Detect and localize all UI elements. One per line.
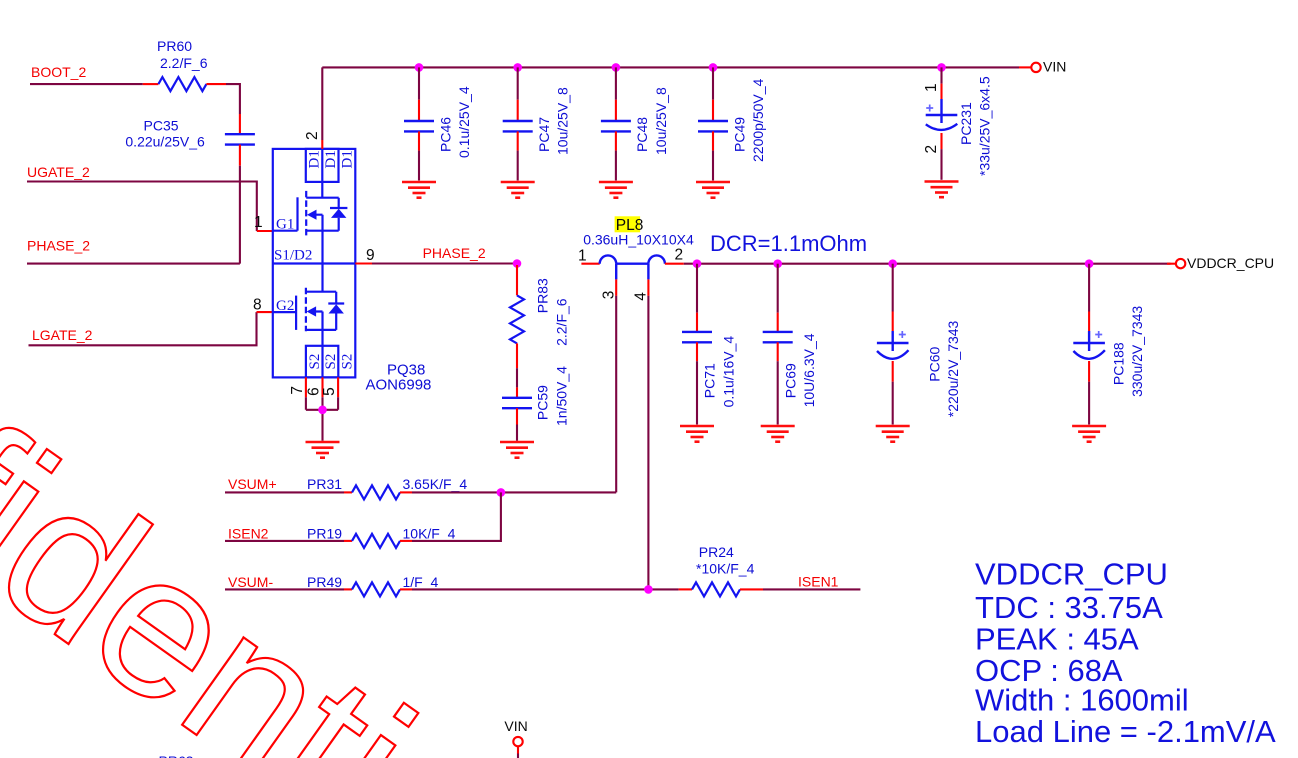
wire PC46 drop	[418, 67, 420, 99]
wire PC231 drop	[940, 67, 942, 83]
terminal VDDCR_CPU	[1176, 259, 1185, 268]
svg-text:1: 1	[923, 83, 940, 92]
wire PC46 to ground	[418, 151, 420, 181]
mosfet upper arrow	[307, 210, 317, 220]
pin stub left of PR49	[344, 588, 352, 590]
wire PC35 to PHASE_2	[239, 166, 241, 264]
svg-text:S2: S2	[323, 354, 339, 370]
junction VSUM+	[497, 488, 506, 497]
bottom pins 7 6 5 stubs	[306, 377, 338, 397]
svg-text:*220u/2V_7343: *220u/2V_7343	[945, 320, 961, 417]
svg-text:PHASE_2: PHASE_2	[27, 238, 90, 254]
junction PC69	[773, 259, 782, 268]
node junction PHASE	[513, 259, 522, 268]
inductor PL8	[600, 255, 665, 279]
svg-text:S2: S2	[307, 354, 323, 370]
svg-text:VIN: VIN	[504, 718, 527, 734]
svg-text:0.1u/16V_4: 0.1u/16V_4	[720, 336, 736, 408]
wire PC71 to ground	[696, 361, 698, 424]
wire PC188 drop	[1088, 264, 1090, 312]
wire PC71 drop	[696, 264, 698, 313]
svg-text:BOOT_2: BOOT_2	[31, 64, 86, 80]
mosfet lower arrow	[307, 306, 317, 316]
wire below VIN terminal	[517, 754, 519, 758]
svg-text:9: 9	[366, 247, 375, 264]
highlight PL8	[615, 216, 641, 232]
svg-text:PR60: PR60	[157, 38, 192, 54]
pin stub left of PR60	[143, 83, 159, 85]
wire bottom pin bus	[306, 397, 338, 441]
svg-text:8: 8	[253, 297, 262, 314]
svg-text:7: 7	[289, 386, 306, 395]
wire LGATE_2	[29, 312, 257, 345]
capacitor PC188 polarized	[1073, 331, 1105, 359]
svg-text:1: 1	[254, 214, 263, 231]
ground below PC71	[680, 426, 714, 442]
wire BOOT_2	[30, 83, 143, 85]
wire ISEN1	[763, 588, 860, 590]
svg-text:2.2/F_6: 2.2/F_6	[554, 298, 570, 346]
svg-text:5: 5	[321, 387, 338, 396]
wire PC47 to ground	[517, 151, 519, 181]
junction PC48	[612, 63, 621, 72]
capacitor PC59	[502, 398, 532, 408]
svg-text:2: 2	[923, 145, 940, 154]
wire PR19 up to VSUM+ junction	[412, 492, 501, 541]
wire VSUM+	[225, 491, 344, 493]
mosfet lower of PQ38	[273, 264, 344, 346]
capacitor PC231 polarized	[926, 99, 958, 130]
terminal VIN bottom	[513, 737, 522, 746]
pin stub top of PC71	[696, 313, 698, 332]
wire ISEN2	[225, 540, 344, 542]
resistor PR24	[692, 582, 740, 596]
ground below PQ38	[306, 442, 340, 458]
wire pin3 sense down	[615, 296, 617, 493]
svg-text:PEAK : 45A: PEAK : 45A	[975, 622, 1139, 657]
wire PR49 to junction	[412, 588, 679, 590]
wire PC231 to ground	[940, 149, 942, 180]
svg-text:*10K/F_4: *10K/F_4	[696, 561, 755, 577]
svg-text:4: 4	[633, 292, 650, 301]
svg-text:TDC : 33.75A: TDC : 33.75A	[975, 590, 1163, 625]
svg-text:PC188: PC188	[1110, 342, 1126, 385]
S1/D2 divider line	[273, 262, 356, 264]
svg-text:PC49: PC49	[731, 117, 747, 152]
pin stub before VDDCR terminal	[1167, 263, 1176, 265]
svg-text:D1: D1	[323, 150, 339, 168]
svg-text:Width : 1600mil: Width : 1600mil	[975, 683, 1189, 718]
pin stub top of PC47	[517, 100, 519, 121]
pin stub top of PR83	[516, 265, 518, 295]
svg-text:6: 6	[305, 387, 322, 396]
svg-text:PC47: PC47	[536, 117, 552, 152]
wire BOOT to PC35	[226, 84, 240, 114]
mosfet upper of PQ38	[273, 182, 348, 264]
svg-text:VDDCR_CPU: VDDCR_CPU	[975, 557, 1168, 592]
ground below PC49	[696, 182, 730, 198]
pin stub top of PC69	[777, 313, 779, 332]
wire VSUM-	[225, 588, 344, 590]
pin stub bottom of PC60	[892, 361, 894, 382]
svg-text:S2: S2	[340, 354, 356, 370]
ground below PC69	[761, 426, 795, 442]
wire VDDCR rail	[684, 263, 1171, 265]
resistor PR49	[352, 582, 400, 596]
pin stub inductor pin 1	[581, 263, 599, 265]
svg-text:0.22u/25V_6: 0.22u/25V_6	[125, 134, 205, 150]
svg-text:ISEN1: ISEN1	[798, 574, 839, 590]
svg-text:PR83: PR83	[535, 278, 551, 313]
capacitor PC46	[404, 121, 434, 131]
pin stub right of PR19	[400, 540, 412, 542]
wire UGATE_2	[27, 182, 257, 232]
pin stub bottom of PC48	[615, 131, 617, 150]
svg-text:PR24: PR24	[699, 544, 734, 560]
wire PC49 to ground	[712, 151, 714, 181]
pin stub right of PR31	[400, 491, 412, 493]
svg-text:VSUM+: VSUM+	[228, 476, 277, 492]
pin stub pin 9	[355, 262, 372, 264]
svg-text:10U/6.3V_4: 10U/6.3V_4	[801, 333, 817, 407]
wire PR31 to junction	[412, 491, 616, 493]
pin stub right of PR24	[740, 588, 763, 590]
ground below PC60	[876, 426, 910, 442]
pin stub bottom of PC49	[712, 131, 714, 150]
svg-text:1: 1	[578, 248, 587, 265]
ground below PC46	[402, 182, 436, 198]
svg-text:0.1u/25V_4: 0.1u/25V_4	[456, 86, 472, 158]
wire PR83 to PC59	[516, 368, 518, 387]
junction VSUM-	[644, 585, 653, 594]
pin stub bottom of PC59	[516, 408, 518, 424]
junction PC188	[1085, 259, 1094, 268]
svg-text:PR49: PR49	[307, 574, 342, 590]
svg-text:PC71: PC71	[702, 363, 718, 398]
wire PC48 to ground	[615, 151, 617, 181]
svg-text:PR63: PR63	[159, 753, 194, 758]
wire PC47 drop	[517, 67, 519, 99]
pin stub top of PC49	[712, 100, 714, 121]
svg-text:PC35: PC35	[144, 118, 179, 134]
pin stub left of PR19	[344, 540, 352, 542]
wire PC69 to ground	[777, 361, 779, 424]
svg-text:S1/D2: S1/D2	[274, 248, 312, 264]
pin stub pin 1 of PC231	[940, 84, 942, 99]
pin stub top of PC35	[239, 114, 241, 134]
transistor PQ38 package outline	[273, 149, 356, 378]
wire PC60 to ground	[892, 382, 894, 425]
svg-text:Load Line = -2.1mV/A: Load Line = -2.1mV/A	[975, 714, 1276, 749]
svg-text:PC48: PC48	[634, 117, 650, 152]
junction PC47	[513, 63, 522, 72]
svg-text:2: 2	[304, 131, 321, 140]
svg-text:LGATE_2: LGATE_2	[32, 327, 93, 343]
svg-text:AON6998: AON6998	[366, 377, 432, 394]
svg-text:VIN: VIN	[1043, 59, 1066, 75]
svg-text:2.2/F_6: 2.2/F_6	[160, 55, 208, 71]
pin stub right of PR60	[206, 83, 226, 85]
svg-text:10K/F_4: 10K/F_4	[403, 526, 456, 542]
S2 pin box	[306, 346, 338, 378]
pin stub left of PR31	[344, 491, 352, 493]
pin stub top of PC60	[892, 312, 894, 332]
svg-text:PC60: PC60	[926, 346, 942, 381]
wire PC69 drop	[777, 264, 779, 313]
junction PC231	[937, 63, 946, 72]
ground below PC231	[925, 182, 959, 198]
capacitor PC48	[601, 121, 631, 131]
pin stub bottom of PR83	[516, 343, 518, 368]
pin stub right of PR49	[400, 588, 412, 590]
resistor PR83	[510, 295, 524, 343]
junction at pin bus	[318, 406, 327, 415]
svg-text:PC69: PC69	[782, 363, 798, 398]
pin stub top of PC48	[615, 100, 617, 121]
pin stub top of PC46	[418, 100, 420, 121]
resistor PR31	[352, 485, 400, 499]
pin stub left of PR24	[679, 588, 692, 590]
svg-text:D1: D1	[340, 150, 356, 168]
wire PHASE_2 left	[27, 263, 240, 265]
svg-text:3: 3	[601, 291, 618, 300]
D1 pin box	[306, 149, 339, 182]
pin stub bottom of PC35	[239, 145, 241, 166]
svg-text:PC231: PC231	[958, 102, 974, 145]
pin stub bottom of PC69	[777, 342, 779, 361]
ground below PC47	[501, 182, 535, 198]
svg-text:DCR=1.1mOhm: DCR=1.1mOhm	[710, 231, 867, 256]
svg-text:3.65K/F_4: 3.65K/F_4	[403, 476, 468, 492]
wire PC59 to ground	[516, 425, 518, 441]
svg-text:2: 2	[675, 247, 684, 264]
svg-text:1n/50V_4: 1n/50V_4	[554, 366, 570, 426]
capacitor PC49	[698, 121, 728, 131]
resistor PR60	[158, 77, 206, 91]
capacitor PC69	[763, 332, 793, 342]
junction PC49	[709, 63, 718, 72]
svg-text:2200p/50V_4: 2200p/50V_4	[750, 78, 766, 162]
svg-text:D1: D1	[307, 150, 323, 168]
ground below PC59	[500, 442, 534, 458]
svg-text:330u/2V_7343: 330u/2V_7343	[1129, 306, 1145, 397]
junction PC46	[415, 63, 424, 72]
svg-text:10u/25V_8: 10u/25V_8	[555, 87, 571, 155]
wire VIN top rail	[322, 66, 1019, 68]
text block VDDCR specs	[975, 557, 1276, 750]
svg-text:PR31: PR31	[307, 476, 342, 492]
wire PC48 drop	[615, 67, 617, 99]
pin stub bottom of PC47	[517, 131, 519, 150]
pin stub below VIN terminal	[517, 747, 519, 754]
wire PHASE_2 mid	[372, 262, 517, 264]
svg-text:ISEN2: ISEN2	[228, 526, 269, 542]
wire pin2 riser	[321, 67, 323, 140]
junction PC71	[693, 259, 702, 268]
ground below PC188	[1072, 426, 1106, 442]
mosfet upper body diode triangle	[331, 209, 346, 218]
ground below PC48	[599, 182, 633, 198]
pin stub bottom of PC71	[696, 342, 698, 361]
svg-text:1/F_4: 1/F_4	[403, 574, 439, 590]
pin stub inductor pin 3	[615, 279, 617, 295]
resistor PR19	[352, 534, 400, 548]
junction PC60	[888, 259, 897, 268]
svg-text:PC46: PC46	[437, 117, 453, 152]
pin stub G2 pin 8	[257, 311, 273, 313]
pin stub inductor pin 4	[647, 279, 649, 295]
pin stub bottom of PC46	[418, 131, 420, 150]
svg-text:UGATE_2: UGATE_2	[27, 164, 90, 180]
svg-text:0.36uH_10X10X4: 0.36uH_10X10X4	[583, 232, 694, 248]
svg-text:10u/25V_8: 10u/25V_8	[653, 87, 669, 155]
capacitor PC60 polarized	[877, 331, 909, 359]
pin stub top of PC188	[1088, 312, 1090, 332]
terminal VIN	[1031, 63, 1040, 72]
wire PC49 drop	[712, 67, 714, 99]
wire PC60 drop	[892, 264, 894, 312]
wire PC188 to ground	[1088, 382, 1090, 425]
pin stub inductor pin 2	[665, 263, 684, 265]
wire pin4 sense down	[647, 296, 649, 590]
capacitor PC47	[503, 121, 533, 131]
svg-text:PR19: PR19	[307, 526, 342, 542]
pin stub before VIN terminal	[1019, 66, 1031, 68]
svg-text:*33u/25V_6x4.5: *33u/25V_6x4.5	[977, 76, 993, 176]
svg-text:PHASE_2: PHASE_2	[423, 245, 486, 261]
pin stub top of PC59	[516, 387, 518, 397]
mosfet lower body diode triangle	[329, 304, 344, 313]
capacitor PC71	[682, 332, 712, 342]
capacitor PC35	[225, 134, 255, 144]
svg-text:VSUM-: VSUM-	[228, 574, 273, 590]
svg-text:PC59: PC59	[535, 385, 551, 420]
pin stub pin 2 of PC231	[940, 133, 942, 149]
pin stub pin 2	[321, 140, 323, 149]
svg-text:VDDCR_CPU: VDDCR_CPU	[1187, 255, 1274, 271]
pin stub bottom of PC188	[1088, 361, 1090, 382]
pin stub G1 pin 1	[257, 230, 273, 232]
